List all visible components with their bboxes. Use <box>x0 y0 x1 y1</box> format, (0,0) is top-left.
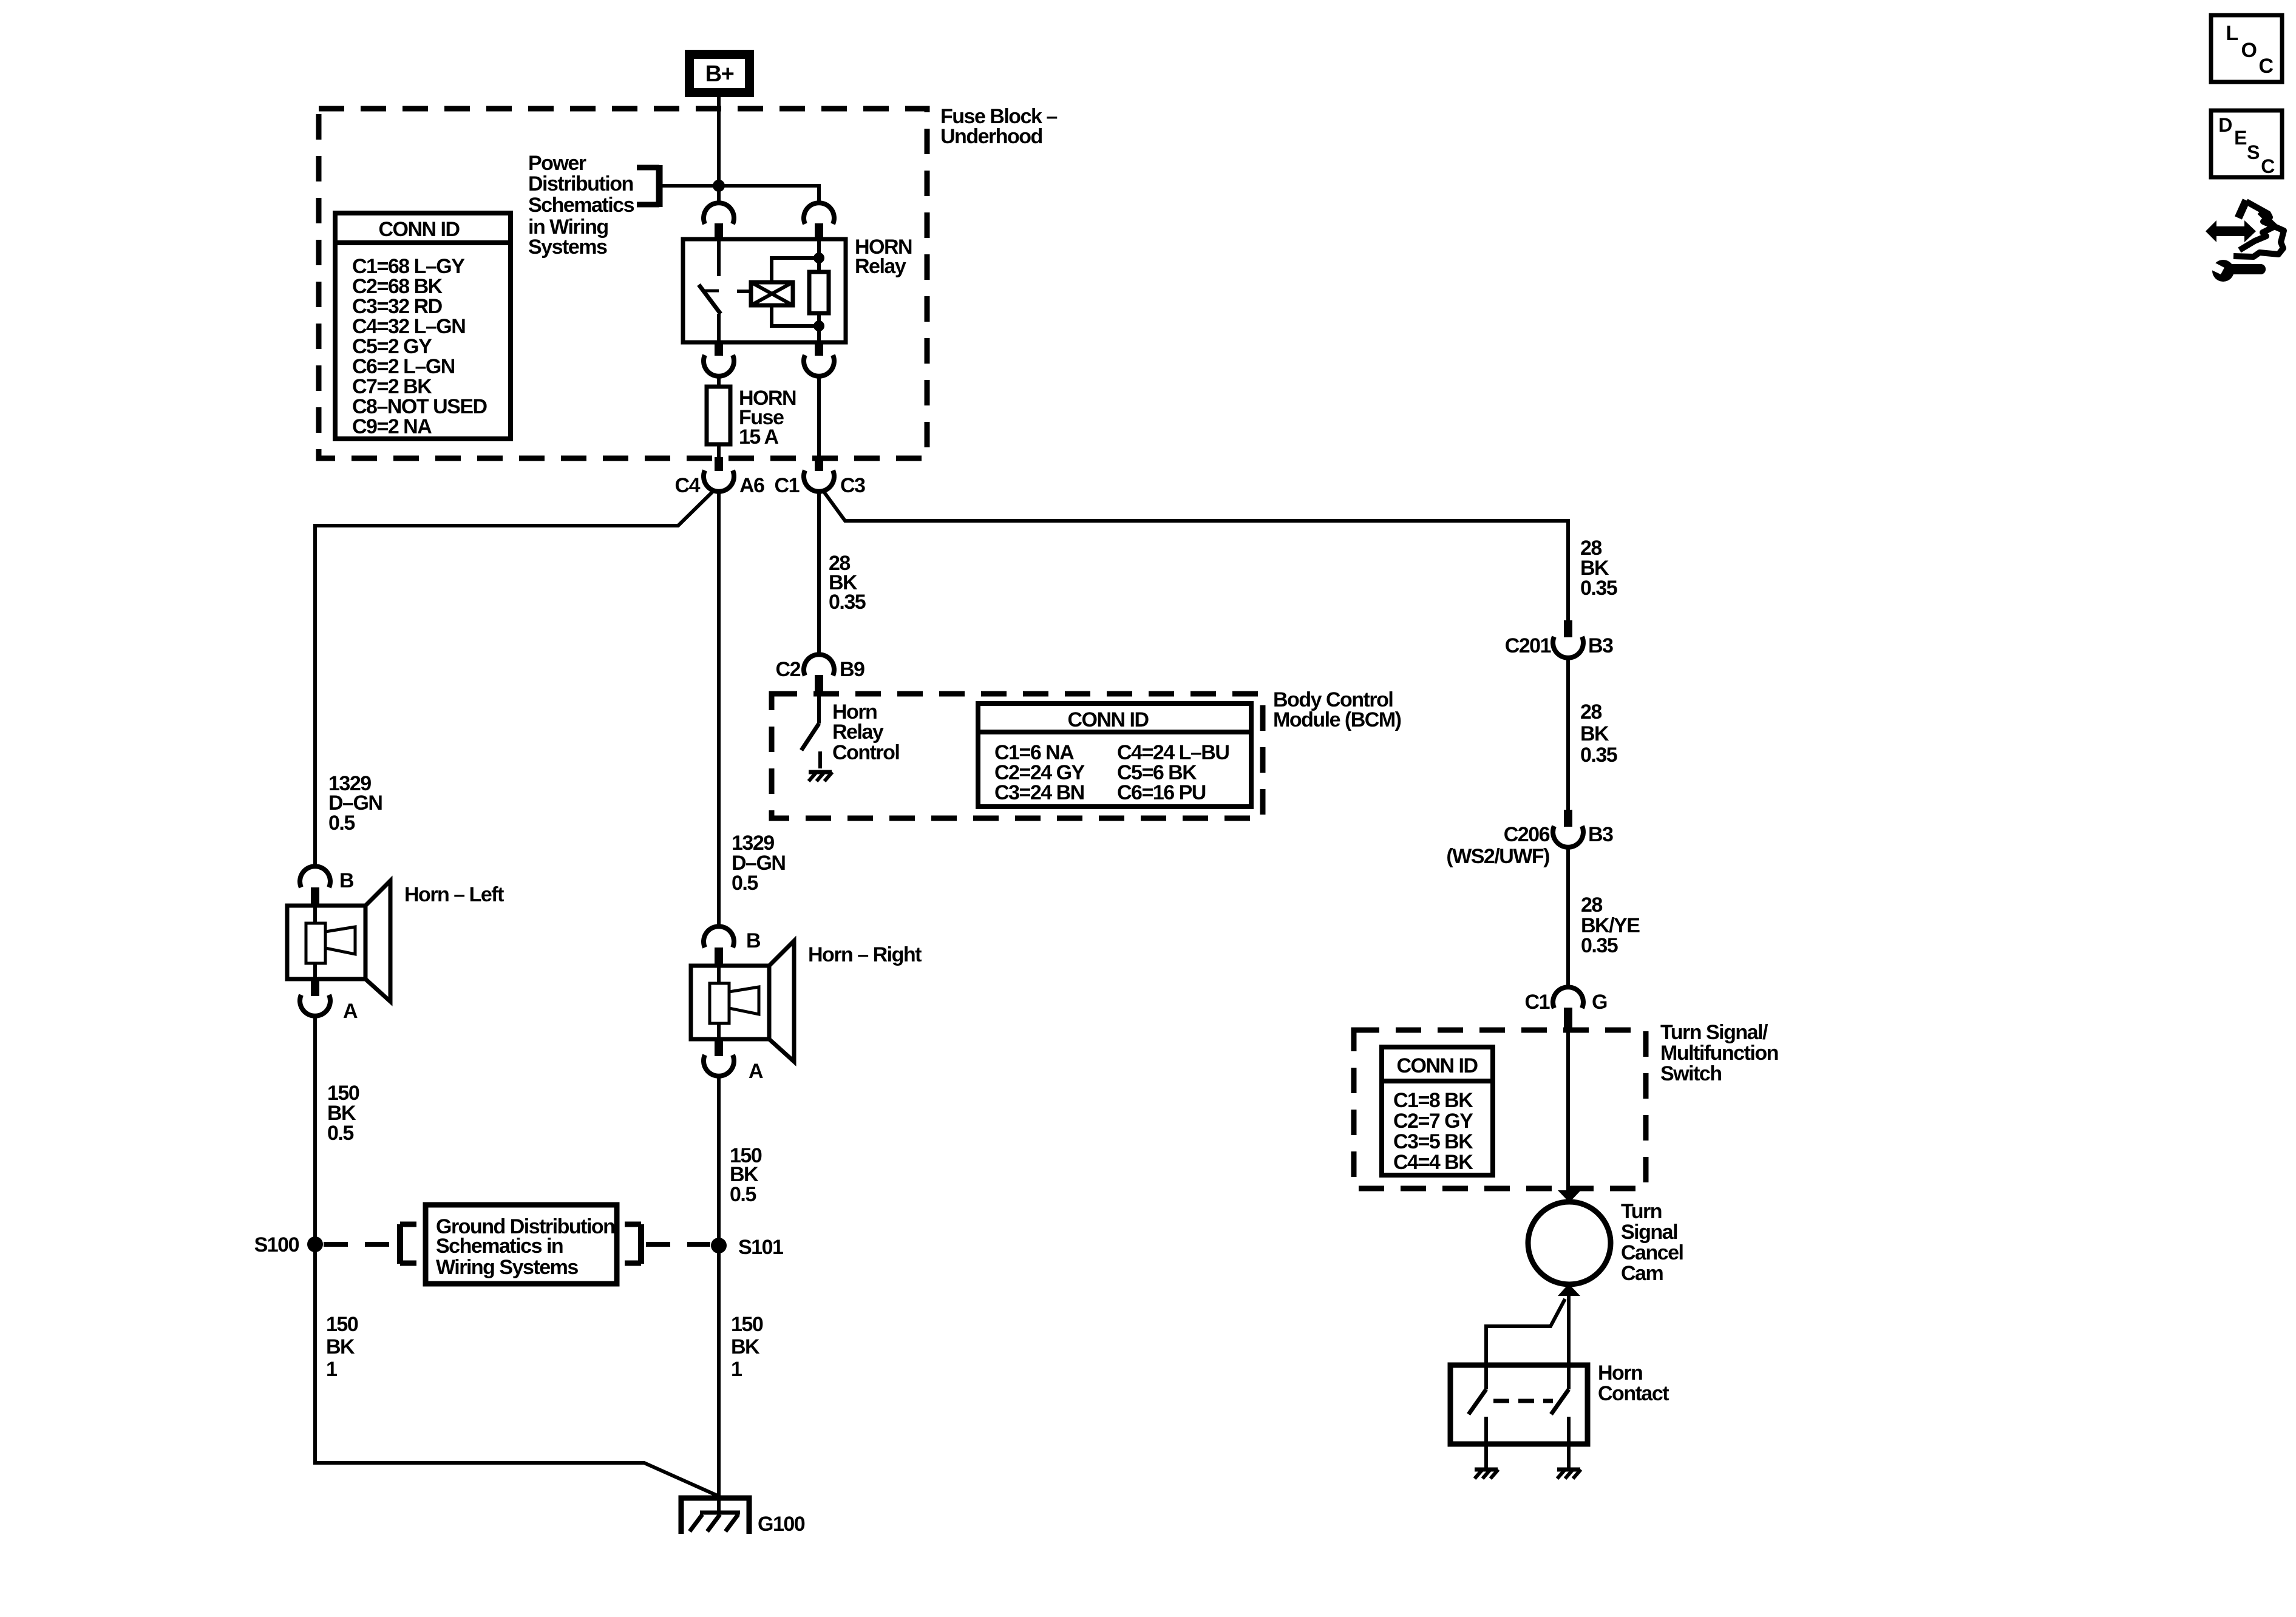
dashed link ground distribution to S101 <box>646 1242 710 1247</box>
svg-text:G: G <box>1592 991 1607 1014</box>
connector relay output left <box>704 343 734 376</box>
svg-text:Module (BCM): Module (BCM) <box>1273 708 1401 731</box>
svg-text:28: 28 <box>1581 893 1602 917</box>
node relay coil bottom junction <box>813 320 824 331</box>
svg-text:C: C <box>2258 55 2273 78</box>
arrow out of cancel cam <box>1558 1284 1580 1296</box>
label C3 <box>840 474 865 497</box>
turn signal cancel cam circle <box>1528 1202 1611 1284</box>
turn signal multifunction switch dashed box <box>1354 1030 1646 1188</box>
svg-text:0.35: 0.35 <box>1581 934 1618 957</box>
svg-text:C1: C1 <box>1525 991 1550 1014</box>
icon double arrow <box>2206 220 2256 242</box>
bracket left ground distribution <box>400 1224 416 1264</box>
svg-text:B9: B9 <box>840 658 864 681</box>
ground right below horn contact <box>1557 1470 1581 1479</box>
svg-text:O: O <box>2241 39 2257 62</box>
wire horn right A to S101 <box>717 1075 721 1244</box>
svg-text:1: 1 <box>326 1358 337 1381</box>
svg-text:C3=24 BN: C3=24 BN <box>994 781 1084 804</box>
fuse HORN Fuse 15 A <box>707 387 796 449</box>
splice S101 <box>711 1236 783 1259</box>
wire switch to cancel cam <box>1566 1030 1570 1192</box>
icon wrench <box>2209 260 2266 282</box>
relay box HORN Relay <box>683 239 846 342</box>
wire Power Distribution bracket to B+ node <box>659 184 819 188</box>
svg-text:Horn – Left: Horn – Left <box>404 883 504 906</box>
svg-text:0.5: 0.5 <box>328 812 355 835</box>
svg-text:0.35: 0.35 <box>829 591 866 614</box>
svg-text:C206: C206 <box>1504 823 1550 846</box>
wire relay control to connector C1 <box>817 375 821 457</box>
svg-text:D: D <box>2218 114 2232 136</box>
connector relay pin 85 (right) <box>804 203 834 240</box>
wire connector C3 to BCM and turn signal switch <box>822 489 1568 622</box>
svg-text:C3: C3 <box>840 474 865 497</box>
svg-text:C: C <box>2261 155 2275 177</box>
power node B+ box <box>685 50 754 97</box>
svg-text:B3: B3 <box>1588 634 1613 657</box>
svg-text:B: B <box>746 929 761 952</box>
ground left below horn contact <box>1475 1470 1498 1479</box>
svg-text:Systems: Systems <box>528 236 607 259</box>
svg-text:G100: G100 <box>758 1513 805 1536</box>
relay resistor <box>809 240 829 343</box>
table CONN ID multifunction switch <box>1382 1047 1493 1175</box>
wire cancel cam to horn contact right <box>1567 1295 1571 1367</box>
relay switch contact <box>699 240 721 343</box>
svg-text:S101: S101 <box>738 1236 783 1259</box>
svg-text:150: 150 <box>326 1313 358 1336</box>
table CONN ID fuse block underhood <box>335 213 511 439</box>
svg-text:B: B <box>339 869 354 892</box>
label wire 150 BK 0.5 (left) <box>327 1082 359 1145</box>
label Horn Relay Control <box>832 700 899 764</box>
svg-text:A: A <box>343 1000 358 1023</box>
splice S100 <box>254 1233 323 1256</box>
svg-text:Signal: Signal <box>1621 1221 1677 1244</box>
svg-text:Relay: Relay <box>855 255 906 278</box>
connector C1 / C3 <box>804 457 834 492</box>
wire cancel cam to horn contact left <box>1486 1299 1565 1367</box>
svg-text:C2: C2 <box>776 658 801 681</box>
label Horn Contact <box>1598 1361 1669 1405</box>
wire S101 to ground G100 <box>717 1246 721 1513</box>
wire relay to HORN fuse <box>717 375 721 387</box>
svg-text:Cancel: Cancel <box>1621 1241 1683 1264</box>
connector C1 / G <box>1525 987 1607 1031</box>
wire C206 to C1 of multifunction switch <box>1566 846 1570 989</box>
svg-text:C4=4 BK: C4=4 BK <box>1393 1151 1473 1174</box>
wire connector C3 to C2 of BCM <box>817 489 821 656</box>
icon schematic navigation arrow <box>2233 200 2284 257</box>
svg-text:C3=5 BK: C3=5 BK <box>1393 1130 1473 1153</box>
svg-text:BK: BK <box>1580 722 1609 745</box>
svg-text:Wiring Systems: Wiring Systems <box>436 1256 578 1279</box>
horn left with connectors B and A <box>287 866 504 1023</box>
svg-text:150: 150 <box>731 1313 763 1336</box>
connector C201 / B3 <box>1505 620 1613 658</box>
svg-text:BK: BK <box>731 1335 760 1358</box>
svg-text:E: E <box>2234 127 2247 149</box>
svg-text:Contact: Contact <box>1598 1382 1669 1405</box>
svg-text:Horn: Horn <box>1598 1361 1642 1385</box>
connector C206 / B3 (WS2/UWF) <box>1446 810 1613 868</box>
label wire 28 BK 0.35 (middle right) <box>1580 700 1617 767</box>
svg-text:A: A <box>749 1060 763 1083</box>
svg-text:1: 1 <box>731 1358 742 1381</box>
body control module dashed box <box>772 694 1263 818</box>
label Turn Signal Multifunction Switch <box>1660 1021 1778 1085</box>
icon DESC box <box>2211 110 2282 177</box>
svg-text:28: 28 <box>1580 700 1601 724</box>
wire S100 to ground loop <box>315 1244 719 1496</box>
svg-text:(WS2/UWF): (WS2/UWF) <box>1446 845 1549 868</box>
svg-text:A6: A6 <box>739 474 764 497</box>
svg-text:C6=16 PU: C6=16 PU <box>1117 781 1206 804</box>
bracket right ground distribution <box>625 1224 641 1264</box>
wire junction to relay coil side <box>719 186 819 205</box>
label wire 150 BK 1 (middle) <box>731 1313 763 1381</box>
svg-text:C201: C201 <box>1505 634 1551 657</box>
label C1 <box>775 474 800 497</box>
label wire 28 BK/YE 0.35 <box>1581 893 1640 957</box>
svg-text:Turn Signal/: Turn Signal/ <box>1660 1021 1768 1044</box>
label Power Distribution Schematics in Wiring Systems <box>528 152 634 259</box>
fuse block underhood dashed box <box>319 109 927 458</box>
svg-text:CONN ID: CONN ID <box>1067 708 1149 731</box>
horn contact box <box>1450 1365 1588 1444</box>
connector C4 / A6 <box>704 457 734 492</box>
svg-text:Cam: Cam <box>1621 1262 1663 1285</box>
wire connector A6 to horn right <box>717 489 721 929</box>
svg-text:0.5: 0.5 <box>730 1183 756 1206</box>
svg-text:C2=7 GY: C2=7 GY <box>1393 1110 1473 1133</box>
label Turn Signal Cancel Cam <box>1621 1200 1683 1285</box>
svg-text:15 A: 15 A <box>739 425 779 449</box>
wire horn left A to S100 <box>313 1015 317 1244</box>
svg-text:0.35: 0.35 <box>1580 744 1617 767</box>
wire HORN fuse to connector C4 <box>717 444 721 457</box>
svg-text:0.35: 0.35 <box>1580 577 1617 600</box>
svg-text:C4: C4 <box>675 474 701 497</box>
label A6 <box>739 474 764 497</box>
svg-text:Switch: Switch <box>1660 1062 1722 1085</box>
svg-text:Schematics: Schematics <box>528 194 634 217</box>
svg-text:Relay: Relay <box>832 720 884 744</box>
svg-text:Multifunction: Multifunction <box>1660 1042 1778 1065</box>
dashed link S100 to ground distribution <box>324 1242 395 1247</box>
horn right with connectors B and A <box>691 926 922 1083</box>
label wire 28 BK 0.35 (to BCM) <box>829 552 866 614</box>
wire horn contact left to ground <box>1484 1444 1488 1470</box>
svg-text:Control: Control <box>832 741 899 764</box>
svg-text:C1: C1 <box>775 474 800 497</box>
label wire 150 BK 0.5 (middle) <box>730 1144 762 1206</box>
wire B+ to horn relay common <box>717 97 721 205</box>
bracket Power Distribution link <box>637 165 659 207</box>
node relay coil top junction <box>813 253 824 263</box>
horn contact right switch <box>1551 1365 1569 1444</box>
svg-text:BK: BK <box>326 1335 355 1358</box>
svg-text:C9=2 NA: C9=2 NA <box>352 415 432 438</box>
svg-text:CONN ID: CONN ID <box>378 218 460 241</box>
wire horn contact right to ground <box>1567 1444 1571 1470</box>
horn contact left switch <box>1469 1365 1486 1444</box>
connector relay pin 30 (left) <box>704 203 734 240</box>
relay coil <box>737 258 819 326</box>
connector relay output right <box>804 343 834 376</box>
svg-text:Horn – Right: Horn – Right <box>808 943 922 966</box>
connector C2 / B9 <box>776 654 865 694</box>
wire connector C4 to horn left <box>315 489 715 868</box>
svg-text:L: L <box>2226 22 2238 45</box>
wire C201 to C206 <box>1566 657 1570 811</box>
svg-text:Underhood: Underhood <box>940 125 1042 148</box>
svg-text:B3: B3 <box>1588 823 1613 846</box>
svg-text:B+: B+ <box>705 61 734 87</box>
label wire 1329 D-GN 0.5 (middle) <box>732 832 785 895</box>
svg-text:Turn: Turn <box>1621 1200 1662 1223</box>
svg-text:0.5: 0.5 <box>327 1122 353 1145</box>
label C4 <box>675 474 701 497</box>
label wire 1329 D-GN 0.5 (left) <box>328 772 382 835</box>
svg-text:Power: Power <box>528 152 586 175</box>
label wire 150 BK 1 (left) <box>326 1313 358 1381</box>
label wire 28 BK 0.35 (upper right) <box>1580 537 1617 600</box>
horn contact switch link dashed <box>1493 1399 1553 1403</box>
switch Horn Relay Control <box>801 692 832 781</box>
svg-text:0.5: 0.5 <box>732 872 758 895</box>
svg-text:Distribution: Distribution <box>528 172 633 195</box>
arrow into cancel cam <box>1558 1190 1581 1202</box>
table CONN ID body control module <box>978 703 1251 807</box>
label Body Control Module (BCM) <box>1273 688 1401 731</box>
svg-text:Schematics in: Schematics in <box>436 1235 563 1258</box>
node junction on B+ feed <box>713 180 725 192</box>
svg-text:CONN ID: CONN ID <box>1396 1054 1478 1077</box>
svg-text:S: S <box>2247 141 2260 163</box>
box Ground Distribution Schematics in Wiring Systems <box>426 1205 617 1284</box>
label HORN Relay <box>855 236 912 278</box>
svg-text:S100: S100 <box>254 1233 299 1256</box>
ground G100 <box>681 1498 805 1536</box>
label Fuse Block Underhood <box>940 105 1057 148</box>
svg-text:C1=8 BK: C1=8 BK <box>1393 1089 1473 1112</box>
icon LOC box <box>2211 15 2282 82</box>
